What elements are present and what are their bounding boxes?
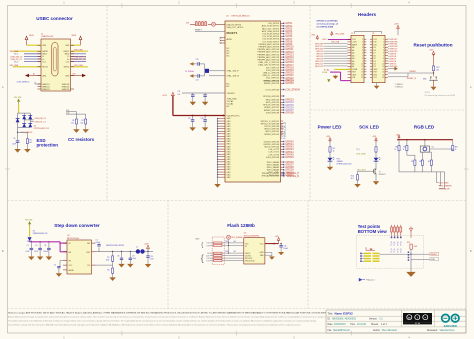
svg-text:SCK LED: SCK LED [359, 125, 380, 130]
wires CC to ground [75, 124, 77, 129]
ground CC1 [73, 129, 79, 133]
svg-text:14: 14 [361, 74, 363, 76]
resistor R8 red channel [398, 140, 400, 146]
wire EN reset [195, 31, 225, 33]
capacitor C10 [147, 252, 149, 256]
wire CC1 [70, 111, 76, 113]
svg-text:2N7002T: 2N7002T [379, 174, 386, 176]
svg-text:VIN_USB: VIN_USB [74, 65, 83, 67]
resistor R13 [375, 147, 377, 152]
ground ESD left [14, 149, 20, 153]
resistor R11 [414, 160, 416, 165]
mechanical bracket headers [354, 31, 381, 33]
svg-text:22pF: 22pF [132, 258, 136, 260]
svg-text:XTAL_32K_P: XTAL_32K_P [227, 70, 240, 73]
svg-text:Piero Ricciardi: Piero Ricciardi [382, 329, 397, 332]
svg-text:VDD3P3_RTC: VDD3P3_RTC [227, 115, 241, 117]
resistor R6 [112, 268, 114, 273]
svg-text:Reset pushbutton: Reset pushbutton [413, 43, 452, 48]
svg-text:1k: 1k [403, 149, 405, 151]
header J3 body [372, 35, 385, 82]
svg-text:SCK_RGB: SCK_RGB [356, 153, 366, 155]
wire magenta VUSB J2 [330, 71, 341, 73]
wire tap USB_DM [24, 119, 34, 121]
svg-text:SHIELD3: SHIELD3 [42, 89, 50, 91]
wire PG [96, 264, 113, 266]
svg-text:+3V3: +3V3 [326, 136, 330, 138]
svg-text:ESP32-S3-MINI-1U: ESP32-S3-MINI-1U [232, 16, 251, 18]
svg-text:2: 2 [362, 42, 363, 44]
svg-text:22uF: 22uF [34, 251, 38, 253]
ground module [214, 184, 220, 188]
svg-text:A6: A6 [352, 62, 354, 65]
svg-text:6: 6 [362, 53, 363, 55]
svg-text:GPIO25: GPIO25 [285, 83, 294, 85]
capacitor C15 [204, 93, 206, 95]
svg-text:D4: D4 [373, 61, 375, 63]
resistor R1 [75, 119, 77, 124]
ground J3 bottom [376, 83, 378, 86]
title block frame [326, 310, 466, 333]
wire VDD 1uF row [182, 92, 225, 94]
svg-text:Title:: Title: [328, 312, 334, 316]
svg-text:Headers: Headers [358, 12, 377, 17]
svg-text:SPECIAL_N_GPIO48: SPECIAL_N_GPIO48 [262, 175, 279, 178]
power flag VBUS right [80, 40, 82, 42]
ESD diode top middle [22, 115, 26, 119]
GND arrow left [29, 75, 41, 77]
svg-text:NC: NC [227, 106, 230, 108]
ground C5 [56, 273, 62, 277]
svg-text:9: 9 [362, 61, 363, 63]
svg-text:15: 15 [382, 77, 384, 79]
svg-text:SW1: SW1 [423, 78, 427, 80]
svg-text:USBC connector: USBC connector [36, 16, 73, 21]
regulator U2 body [67, 240, 92, 274]
svg-text:4k7: 4k7 [351, 178, 354, 180]
power flag VBUS left [26, 40, 28, 42]
LED PG1 green [328, 158, 333, 161]
rail capacitor C17 [192, 116, 194, 120]
power flag VUSB stepdown [28, 221, 31, 224]
wire SW node [96, 251, 136, 253]
svg-text:C16: C16 [284, 246, 287, 248]
svg-text:TP_L: TP_L [356, 149, 360, 151]
flash decoupling cap C16 [280, 244, 282, 246]
svg-text:A1: A1 [352, 49, 354, 52]
svg-text:A2: A2 [352, 52, 354, 55]
svg-text:Time:: Time: [350, 324, 356, 326]
svg-text:10: 10 [382, 63, 384, 65]
svg-text:RESET_N: RESET_N [407, 78, 417, 80]
svg-text:A: A [470, 85, 472, 89]
svg-text:Fiducial 1: Fiducial 1 [366, 280, 375, 282]
svg-text:VUSB: VUSB [352, 69, 358, 71]
red flag down testpoints [409, 228, 412, 231]
svg-text:TP_B: TP_B [400, 249, 402, 253]
USB data pair wires left [24, 53, 41, 55]
svg-text:RC debouncing external to save: RC debouncing external to save BOM [425, 94, 456, 97]
wire VBUS right [80, 41, 82, 45]
svg-text:SPECIAL_N: SPECIAL_N [287, 175, 300, 178]
svg-text:PMEG4005EJ,115: PMEG4005EJ,115 [33, 233, 48, 235]
svg-text:B: B [470, 249, 472, 253]
input capacitor C2 [39, 242, 41, 249]
ground C1 [28, 257, 34, 261]
input capacitor C3 [48, 242, 50, 249]
svg-text:8: 8 [362, 58, 363, 60]
svg-text:AUX_SCL_GPIO2: AUX_SCL_GPIO2 [262, 27, 280, 30]
svg-text:TP_A4: TP_A4 [324, 68, 330, 71]
svg-text:C9: C9 [132, 256, 134, 258]
wire button top [433, 54, 435, 66]
svg-text:SPECIAL_P_GPIO47: SPECIAL_P_GPIO47 [262, 172, 279, 175]
svg-text:+3V3: +3V3 [429, 50, 433, 52]
svg-text:16/05/2023: 16/05/2023 [334, 324, 346, 326]
flash U5 body [244, 238, 265, 264]
svg-text:PERIPH_AUX_GPIO9: PERIPH_AUX_GPIO9 [259, 46, 280, 49]
capacitor C14 [192, 93, 194, 95]
svg-text:100k: 100k [106, 259, 110, 261]
svg-text:GND: GND [431, 259, 436, 261]
power flag 3V3 out [147, 249, 149, 251]
creative commons logo [403, 313, 432, 323]
svg-text:CON_SHIELD: CON_SHIELD [17, 82, 30, 84]
svg-text:4: 4 [383, 47, 384, 49]
svg-text:2: 2 [383, 42, 384, 44]
svg-text:A4: A4 [352, 57, 354, 60]
wire footprint to reset [380, 253, 412, 255]
svg-text:USB_DP_C1: USB_DP_C1 [35, 122, 46, 124]
svg-text:6: 6 [383, 53, 384, 55]
input capacitor C1 [30, 242, 32, 249]
svg-text:L1: L1 [136, 247, 138, 249]
module U1 body [225, 21, 281, 182]
rgb bottom bus [399, 171, 445, 173]
gate pulldown resistor [358, 170, 366, 172]
wire VUSB to diode [29, 227, 31, 237]
ESD diode bottom middle [22, 123, 26, 127]
USB-C receptacle symbol [52, 43, 58, 77]
series resistors RN1 [195, 22, 197, 26]
svg-text:File:: File: [328, 330, 333, 332]
module right pins group E [281, 141, 284, 143]
ground J2 [334, 75, 336, 76]
svg-text:10nF: 10nF [12, 144, 16, 146]
connector J1 body [41, 39, 71, 91]
svg-text:TP_B: TP_B [394, 249, 396, 253]
svg-text:+3V3: +3V3 [372, 136, 376, 138]
resistor R17 [432, 66, 434, 71]
svg-text:100nF: 100nF [284, 248, 289, 250]
svg-text:3: 3 [362, 44, 363, 46]
svg-text:R8: R8 [396, 146, 398, 148]
svg-text:{: { [201, 253, 204, 264]
module GND pin bus [217, 119, 219, 185]
svg-text:R12: R12 [419, 161, 422, 163]
wire VUSB down [18, 104, 20, 113]
svg-text:ILOG_GPIO46: ILOG_GPIO46 [266, 89, 280, 91]
module right pins group F [281, 161, 284, 163]
svg-text:1: 1 [383, 39, 384, 41]
svg-text:A0: A0 [352, 46, 354, 49]
svg-text:CC resistors: CC resistors [68, 137, 95, 142]
RGB LED U4 [424, 140, 426, 146]
pullup dashed group [212, 237, 224, 265]
olive flag VUSB down [327, 79, 330, 82]
svg-text:ARDUINO: ARDUINO [444, 324, 458, 328]
svg-text:SDIO_DATA2: SDIO_DATA2 [267, 166, 280, 169]
svg-text:100nF: 100nF [96, 242, 101, 244]
arduino logo [442, 314, 450, 322]
svg-text:BOTTOM view: BOTTOM view [358, 229, 388, 234]
svg-text:GPIO13: GPIO13 [315, 66, 324, 68]
svg-text:22uF: 22uF [26, 251, 30, 253]
power flag VUSB [17, 99, 20, 102]
svg-text:SDIO_DATA1: SDIO_DATA1 [267, 163, 280, 166]
svg-text:10:24:46: 10:24:46 [357, 324, 367, 326]
test pad squares [408, 252, 410, 254]
svg-text:+3V3: +3V3 [275, 236, 279, 238]
test point dashed outline [357, 235, 424, 268]
svg-text:5k1: 5k1 [81, 122, 84, 124]
svg-text:R9: R9 [403, 146, 405, 148]
svg-text:A: A [2, 85, 4, 89]
svg-text:LNA_IN_GPIO0: LNA_IN_GPIO0 [227, 23, 242, 26]
ground flash cap [278, 252, 284, 255]
svg-text:SPICS0_GPIO33: SPICS0_GPIO33 [263, 96, 280, 98]
svg-text:10k: 10k [436, 69, 439, 71]
rail capacitor C18 [204, 116, 206, 120]
svg-text:10: 10 [361, 63, 363, 65]
transistor T1 [365, 170, 374, 172]
net tie circle [212, 22, 216, 26]
resistor R9 green channel [406, 140, 408, 146]
svg-text:PERIPH_AUX_GPIO10: PERIPH_AUX_GPIO10 [257, 48, 279, 51]
GND arrow right [71, 75, 83, 77]
resistor R15 [430, 160, 432, 165]
svg-text:PERIPH_AUX_GPIO8: PERIPH_AUX_GPIO8 [259, 43, 280, 46]
wire rgb right pin [430, 148, 453, 150]
svg-text:GPIO46: GPIO46 [285, 157, 294, 159]
ground CC2 [83, 129, 89, 133]
svg-text:Version:: Version: [369, 318, 378, 321]
svg-text:U4: U4 [432, 147, 434, 149]
svg-text:32.768kHz: 32.768kHz [185, 71, 194, 73]
thick rail rgb [397, 139, 453, 141]
svg-text:RESET'3: RESET'3 [227, 31, 238, 35]
svg-text:R11: R11 [411, 161, 414, 163]
svg-text:PERIPH_AUX_GPIO14: PERIPH_AUX_GPIO14 [257, 59, 279, 62]
svg-text:D3: D3 [373, 63, 375, 65]
resistor R2 [85, 119, 87, 124]
ground C2 [37, 257, 43, 261]
svg-text:12: 12 [382, 69, 384, 71]
svg-text:3V3_FLASH: 3V3_FLASH [231, 236, 243, 239]
ESD diode top right [28, 115, 32, 119]
ground gate resistor [354, 184, 360, 188]
wire shield [35, 83, 41, 85]
svg-text:VIN_USB: VIN_USB [25, 220, 33, 222]
svg-text:AGND: AGND [69, 269, 75, 272]
svg-text:TP_B: TP_B [391, 249, 393, 253]
svg-text:LED_BLUE: LED_BLUE [439, 188, 450, 190]
wire CC2 [70, 113, 86, 115]
svg-text:7: 7 [383, 55, 384, 57]
big ground testpoints [406, 272, 416, 277]
svg-text:5k1: 5k1 [234, 241, 237, 243]
svg-text:TP_B: TP_B [397, 249, 399, 253]
svg-text:GND: GND [227, 177, 232, 179]
flash VCC thick wire [265, 243, 279, 245]
svg-text:the ESP32-S3MI: the ESP32-S3MI [317, 26, 334, 29]
svg-text:13: 13 [361, 72, 363, 74]
svg-text:AUX_SCM_GPIO1: AUX_SCM_GPIO1 [262, 25, 280, 28]
svg-text:5k1: 5k1 [234, 251, 237, 253]
svg-text:R5: R5 [107, 257, 109, 259]
svg-text:W25Q128JWPIQ: W25Q128JWPIQ [244, 236, 260, 238]
svg-text:D5: D5 [373, 58, 375, 60]
svg-text:NanoESP32.sch: NanoESP32.sch [333, 330, 351, 332]
net tie flash 3V3 [227, 235, 231, 239]
svg-text:FLASH_D0_IO: FLASH_D0_IO [281, 123, 284, 139]
pad footprint yellow [364, 252, 371, 254]
svg-text:C10: C10 [150, 256, 153, 258]
ground C15 [202, 102, 208, 106]
module right pins group B [281, 80, 284, 82]
module right pins group A [281, 22, 284, 24]
svg-text:PERIPH_AUX_GPIO12: PERIPH_AUX_GPIO12 [257, 53, 279, 56]
flash wires and pull resistors [210, 242, 244, 244]
svg-text:GPIO44: GPIO44 [389, 66, 398, 68]
test point resistors [391, 225, 393, 227]
ground arrow J3 [388, 68, 394, 70]
connector J1 pin stubs left [38, 44, 42, 46]
svg-text:CC1: CC1 [42, 61, 46, 63]
svg-text:Nano ESP32: Nano ESP32 [335, 312, 354, 316]
svg-text:SSTX2: SSTX2 [64, 67, 70, 69]
svg-text:R6: R6 [107, 269, 109, 271]
svg-text:USB_DM_C1: USB_DM_C1 [35, 118, 46, 120]
svg-text:Date:: Date: [328, 323, 334, 326]
svg-text:T_SWDIO: T_SWDIO [395, 84, 404, 86]
svg-text:1k: 1k [333, 150, 335, 152]
svg-text:GPIO00 and GPIO46: GPIO00 and GPIO46 [317, 20, 339, 23]
svg-text:SDIO_DATA0: SDIO_DATA0 [267, 161, 280, 164]
wire VUSB lower right with label [71, 66, 89, 68]
wire VUSB upper left with label [13, 50, 41, 52]
svg-text:SW: SW [87, 243, 90, 245]
wire magenta input rail [30, 241, 60, 243]
svg-text:D10: D10 [373, 44, 376, 46]
svg-text:SDIO_DATA3: SDIO_DATA3 [267, 169, 280, 172]
svg-text:9: 9 [383, 61, 384, 63]
svg-text:C6: C6 [13, 138, 15, 140]
svg-text:A7: A7 [352, 65, 354, 68]
thick 3V3 rail [172, 96, 174, 116]
ESD diode bottom right [28, 123, 32, 127]
wires to ground [17, 142, 19, 149]
diode D1 [28, 237, 32, 241]
wires reset to button [388, 72, 434, 74]
svg-text:C13: C13 [196, 79, 199, 81]
svg-text:IO48_GPIO48: IO48_GPIO48 [266, 157, 280, 159]
svg-text:VDD3P3: VDD3P3 [227, 93, 236, 95]
svg-text:GND: GND [352, 74, 357, 76]
resistor R25 dnp [410, 244, 412, 249]
svg-text:C2: C2 [35, 245, 37, 247]
svg-text:AVDD: AVDD [227, 38, 233, 41]
svg-text:The product information on the: The product information on the Web Site … [8, 320, 317, 323]
svg-text:VIN_USB: VIN_USB [331, 42, 340, 44]
svg-text:11: 11 [383, 66, 385, 68]
resistor R10 blue channel [452, 140, 454, 146]
svg-text:SPIWP_GPIO25: SPIWP_GPIO25 [264, 83, 280, 85]
ground flash [269, 257, 275, 260]
wire to shield node [17, 127, 19, 132]
svg-text:IO39_GPIO39: IO39_GPIO39 [266, 112, 280, 114]
ESD diode array rails [18, 112, 31, 114]
svg-text:RX0: RX0 [373, 74, 377, 76]
svg-text:IO1: IO1 [207, 261, 210, 263]
svg-text:1k: 1k [394, 149, 396, 151]
wire button to ground [433, 80, 435, 87]
svg-text:8: 8 [383, 58, 384, 60]
svg-text:R23: R23 [226, 251, 229, 253]
wire tap USB_DP [30, 121, 34, 123]
svg-text:D13: D13 [352, 39, 355, 41]
NC stubs [221, 37, 226, 39]
section divider dashed lines [106, 6, 108, 201]
wire VBUS left [26, 41, 28, 45]
svg-text:D12: D12 [373, 39, 376, 41]
svg-text:Arduino SA may make changes to: Arduino SA may make changes to specifica… [8, 316, 332, 319]
svg-text:13: 13 [382, 72, 384, 74]
svg-text:C12: C12 [196, 59, 199, 61]
ground C3 [46, 257, 52, 261]
svg-text:GND: GND [195, 238, 200, 240]
svg-text:GND: GND [260, 252, 265, 254]
svg-text:C8: C8 [117, 256, 119, 258]
inductor L1 [136, 249, 140, 253]
resistor R4 [329, 147, 331, 152]
svg-text:R10: R10 [455, 146, 458, 148]
svg-text:GND: GND [65, 75, 70, 77]
svg-text:+3V3: +3V3 [144, 244, 148, 246]
svg-text:5k1: 5k1 [71, 122, 74, 124]
capacitor C5 on EN [60, 260, 63, 262]
svg-text:C17: C17 [188, 118, 191, 120]
svg-text:ABX00083 / ABX00063: ABX00083 / ABX00063 [332, 318, 356, 321]
svg-text:SHIELD6: SHIELD6 [62, 89, 70, 91]
wire to big ground [410, 259, 412, 272]
svg-text:5: 5 [383, 50, 384, 52]
svg-text:ID:: ID: [328, 319, 331, 321]
svg-text:J3: J3 [372, 33, 374, 35]
pad bracket mark [366, 249, 375, 251]
svg-text:VIN_USB: VIN_USB [14, 97, 22, 99]
wires crystal to module [209, 70, 225, 72]
svg-text:Sheets:: Sheets: [371, 323, 379, 326]
pushbutton SW1 [430, 77, 431, 78]
svg-text:PERIPH_AUX_GPIO13: PERIPH_AUX_GPIO13 [257, 56, 279, 59]
power flag 3V3 module [172, 96, 174, 98]
svg-text:D8: D8 [373, 50, 375, 52]
svg-text:+3V3: +3V3 [352, 42, 356, 44]
module right pins group C [281, 95, 284, 97]
svg-text:PERIPH_AUX_GPIO11: PERIPH_AUX_GPIO11 [258, 51, 280, 54]
wire antenna row [190, 24, 195, 26]
